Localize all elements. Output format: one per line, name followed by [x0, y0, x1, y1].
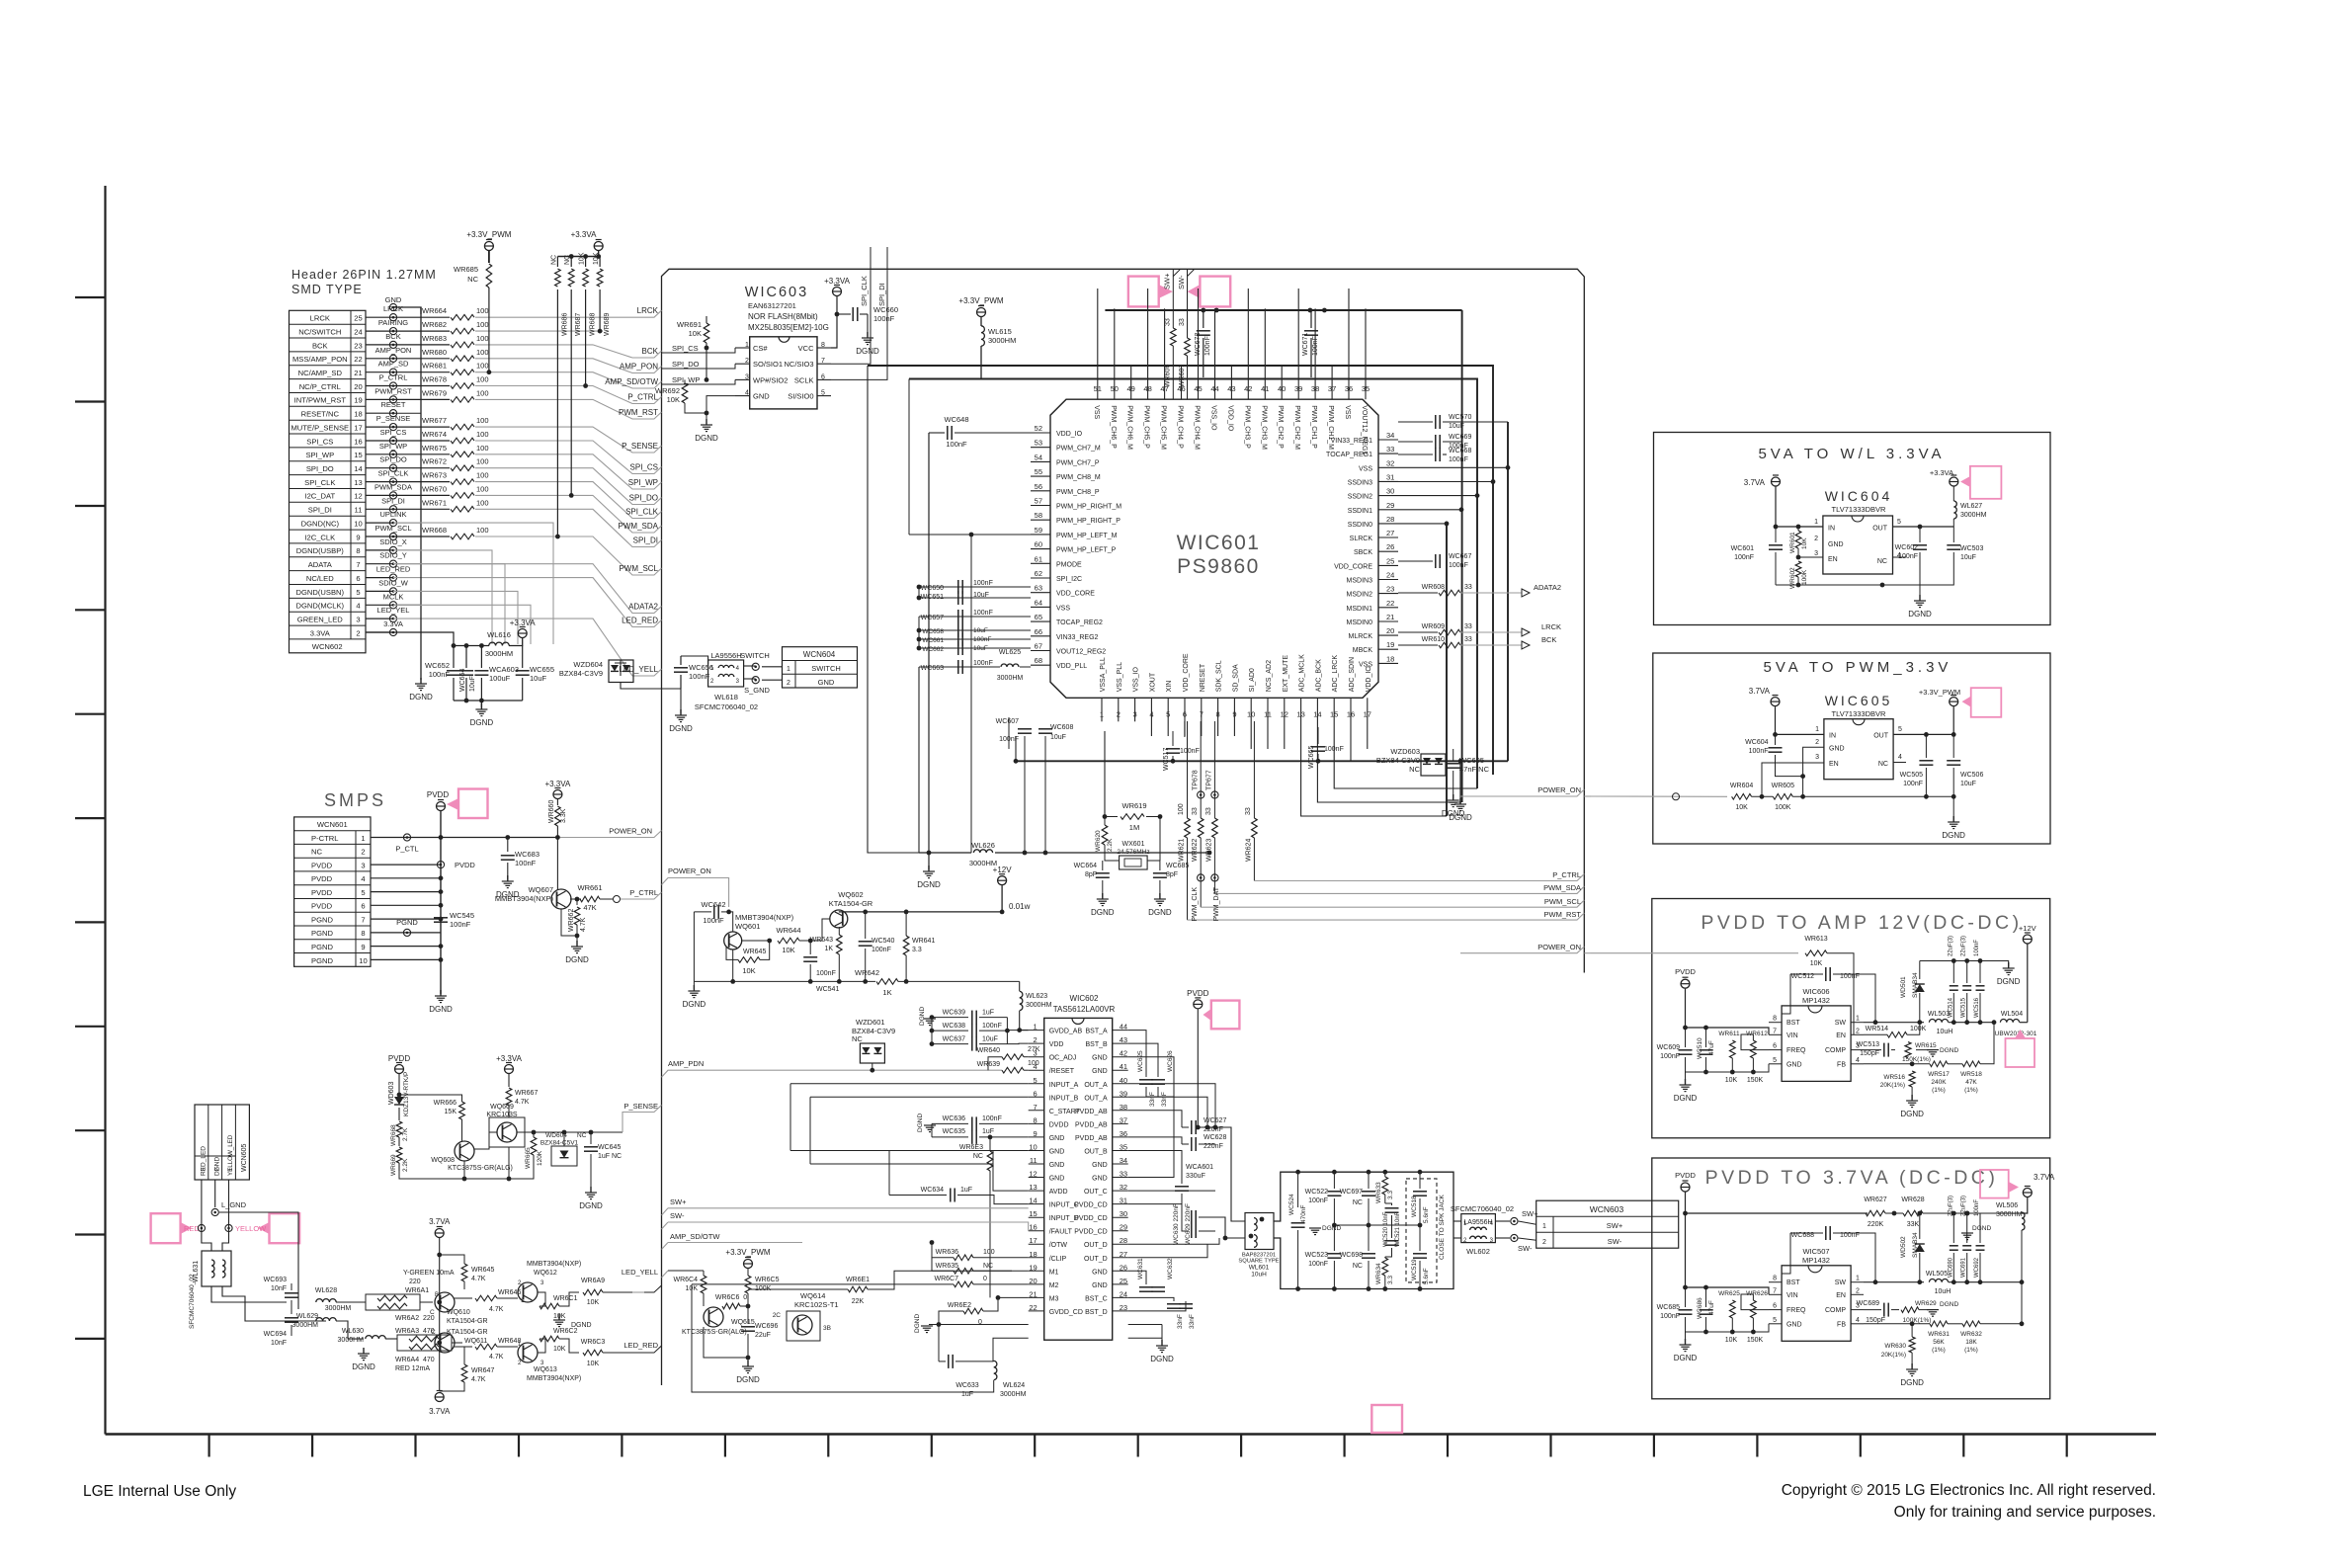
wire WR688 drop	[585, 289, 587, 386]
svg-text:OUT_A: OUT_A	[1084, 1095, 1108, 1102]
svg-text:5: 5	[361, 888, 365, 897]
svg-text:GVDD_AB: GVDD_AB	[1049, 1029, 1083, 1035]
wire 3.3VA row to caps cluster	[366, 632, 454, 646]
svg-text:WP#/SIO2: WP#/SIO2	[753, 375, 788, 384]
svg-text:100nF: 100nF	[1898, 553, 1918, 560]
svg-text:3000HM: 3000HM	[485, 649, 513, 658]
block box PVDD TO AMP 12V(DC-DC)	[1652, 899, 2050, 1138]
bus wire bottom collect	[1016, 760, 1508, 762]
svg-text:4.7K: 4.7K	[471, 1376, 486, 1383]
svg-text:4.7K: 4.7K	[515, 1099, 530, 1106]
capacitor WC521 10nF	[1385, 1240, 1399, 1242]
svg-text:WR516: WR516	[1883, 1074, 1905, 1081]
svg-text:GND: GND	[1049, 1149, 1065, 1156]
svg-text:WR6C7: WR6C7	[934, 1276, 958, 1282]
wire box1 in	[1776, 487, 1823, 528]
svg-text:100nF: 100nF	[973, 610, 993, 617]
svg-text:DGND: DGND	[1148, 908, 1172, 917]
capacitor WC627 220nF	[1128, 1111, 1182, 1127]
capacitor WC665b 8pF	[1153, 872, 1167, 874]
svg-text:VSS_PLL: VSS_PLL	[1117, 662, 1123, 692]
svg-text:2: 2	[1814, 536, 1818, 542]
svg-text:NC: NC	[1877, 558, 1887, 565]
svg-text:WR660: WR660	[548, 800, 555, 823]
svg-text:22K: 22K	[852, 1298, 865, 1305]
svg-text:WR6A2 220: WR6A2 220	[395, 1315, 435, 1322]
svg-text:DGND: DGND	[1674, 1094, 1698, 1103]
svg-text:63: 63	[1035, 584, 1042, 593]
svg-text:SLRCK: SLRCK	[1350, 536, 1373, 542]
svg-text:22: 22	[1386, 599, 1394, 608]
svg-text:1: 1	[1856, 1276, 1860, 1282]
wire WCN603 pins	[1518, 1220, 1536, 1222]
wire INPUT_A INPUT_B	[790, 1083, 1029, 1085]
svg-text:DGND: DGND	[1442, 809, 1465, 818]
diode WD604 BZX84-C5V1 NC	[551, 1146, 577, 1166]
svg-text:0: 0	[983, 1276, 987, 1282]
svg-text:WC691: WC691	[1961, 1257, 1967, 1278]
svg-text:POWER_ON: POWER_ON	[1537, 943, 1581, 951]
wire SW+ to INPUT_C	[662, 1208, 669, 1215]
svg-text:WZD604: WZD604	[573, 660, 603, 669]
svg-text:VDD_IO: VDD_IO	[1226, 405, 1233, 432]
svg-text:WQ607: WQ607	[529, 885, 553, 894]
node P_CTL	[403, 834, 410, 841]
svg-text:100nF: 100nF	[1903, 781, 1923, 787]
svg-text:18: 18	[354, 410, 362, 419]
svg-text:33: 33	[1464, 623, 1472, 630]
svg-text:6: 6	[361, 902, 365, 911]
svg-text:150K: 150K	[1747, 1077, 1764, 1084]
svg-text:EN: EN	[1836, 1292, 1846, 1299]
svg-text:100: 100	[476, 306, 489, 315]
svg-text:WC503: WC503	[1960, 545, 1983, 552]
svg-text:SFCMC706040_02: SFCMC706040_02	[695, 702, 758, 711]
svg-text:60: 60	[1035, 540, 1042, 549]
svg-text:2: 2	[787, 680, 790, 687]
capacitor WC672 100nF	[1203, 310, 1204, 328]
header pin 23 row BCK wire	[366, 344, 393, 346]
svg-text:14: 14	[354, 464, 362, 473]
svg-text:NC: NC	[852, 1034, 863, 1043]
svg-text:3.3VA: 3.3VA	[310, 628, 331, 637]
svg-text:MP1432: MP1432	[1802, 1256, 1830, 1265]
svg-text:1uF: 1uF	[960, 1187, 972, 1194]
svg-text:3000HM: 3000HM	[292, 1322, 319, 1329]
svg-text:P_CTRL: P_CTRL	[1552, 870, 1581, 879]
resistor WR6C6 0	[722, 1303, 740, 1309]
svg-text:100nF: 100nF	[1449, 456, 1468, 463]
svg-text:1K: 1K	[824, 946, 833, 952]
svg-text:WC627: WC627	[1204, 1117, 1226, 1124]
svg-text:WR619: WR619	[1121, 801, 1146, 810]
svg-text:WR687: WR687	[575, 313, 582, 336]
svg-text:AMP_PON: AMP_PON	[375, 346, 412, 355]
svg-text:SBCK: SBCK	[1354, 549, 1372, 556]
capacitor WC660 100nF	[835, 312, 840, 317]
svg-text:VSS: VSS	[1344, 405, 1351, 419]
svg-text:DGND: DGND	[736, 1375, 760, 1384]
svg-text:25: 25	[354, 314, 362, 323]
svg-text:10uH: 10uH	[1935, 1288, 1951, 1295]
svg-text:WC639: WC639	[943, 1010, 965, 1017]
svg-text:5.6nF: 5.6nF	[1423, 1206, 1430, 1223]
svg-text:OUT_D: OUT_D	[1084, 1256, 1108, 1263]
svg-text:2.7K: 2.7K	[402, 1127, 409, 1141]
svg-text:100nF: 100nF	[1312, 336, 1319, 356]
wire P_CTRL to boundary	[475, 386, 662, 404]
svg-text:PWM_CH7_M: PWM_CH7_M	[1056, 446, 1101, 453]
svg-text:SPI_DI: SPI_DI	[308, 506, 332, 515]
capacitor WC630 220nF	[1128, 1217, 1182, 1231]
svg-text:PGND: PGND	[311, 929, 333, 938]
svg-text:UPLINK: UPLINK	[379, 510, 406, 519]
svg-text:WC633: WC633	[955, 1382, 978, 1389]
svg-text:3: 3	[201, 1168, 208, 1172]
svg-text:WC664: WC664	[1074, 863, 1097, 869]
svg-text:WR601: WR601	[1789, 532, 1796, 553]
callout pink square YELLOW	[270, 1213, 300, 1243]
svg-text:ADC_MCLK: ADC_MCLK	[1299, 654, 1306, 692]
svg-text:GND: GND	[1092, 1162, 1108, 1169]
svg-text:WC513: WC513	[1857, 1041, 1879, 1048]
svg-text:FREQ: FREQ	[1786, 1307, 1806, 1314]
svg-text:WR624: WR624	[1245, 839, 1252, 862]
svg-text:100nF: 100nF	[1734, 554, 1754, 561]
resistor WR605 100K	[1773, 794, 1792, 800]
svg-text:(1%): (1%)	[1964, 1347, 1978, 1354]
svg-text:WC663: WC663	[921, 665, 944, 672]
svg-text:7: 7	[1773, 1287, 1777, 1294]
svg-text:WC625: WC625	[1137, 1050, 1144, 1072]
svg-text:WC672: WC672	[1195, 333, 1202, 356]
svg-text:WR633: WR633	[1375, 1182, 1382, 1203]
svg-text:+3.3VA: +3.3VA	[496, 1054, 523, 1063]
svg-text:SDIO_Y: SDIO_Y	[379, 551, 407, 560]
svg-text:LA9556H: LA9556H	[710, 651, 741, 660]
svg-text:EN: EN	[1836, 1032, 1846, 1039]
resistor WR610 33 to BCK	[1398, 644, 1438, 646]
svg-text:WR629: WR629	[1915, 1300, 1937, 1307]
svg-text:WL623: WL623	[1026, 993, 1047, 1000]
svg-text:WIC604: WIC604	[1825, 488, 1893, 504]
resistor WR662 4.7K	[575, 897, 580, 902]
ground WC683 DGND	[507, 875, 509, 881]
svg-text:PVDD: PVDD	[311, 902, 333, 911]
svg-text:WR661: WR661	[577, 883, 602, 892]
ground WC695 DGND	[1453, 794, 1454, 800]
svg-text:4: 4	[1856, 1317, 1860, 1324]
svg-text:WC667: WC667	[1449, 553, 1471, 560]
ground caps cluster DGND	[480, 701, 482, 707]
wire WC639 bus to pin1	[1006, 1018, 1008, 1044]
svg-text:PWM_CH8_P: PWM_CH8_P	[1056, 489, 1100, 496]
header pin 22 row AMP_PON wire	[366, 358, 393, 360]
svg-text:LRCK: LRCK	[310, 314, 330, 323]
wire GND pins 9-12	[993, 1151, 1029, 1192]
svg-text:PVDD_AB: PVDD_AB	[1075, 1109, 1108, 1115]
svg-text:WC602: WC602	[1895, 544, 1918, 551]
svg-text:10uF: 10uF	[1960, 781, 1976, 787]
wire SDIO_X/SDIO_Y/SDIO_W/MCLK drops	[393, 550, 492, 644]
svg-text:WR610: WR610	[1422, 636, 1445, 643]
svg-text:WC522: WC522	[1305, 1189, 1328, 1196]
svg-text:100K: 100K	[1910, 1026, 1927, 1032]
main schematic boundary outline	[662, 269, 1585, 1385]
svg-text:NRESET: NRESET	[1200, 663, 1206, 692]
svg-text:DGND(USBP): DGND(USBP)	[296, 546, 345, 555]
svg-text:10uF: 10uF	[1960, 554, 1976, 561]
svg-text:WC609: WC609	[1657, 1044, 1680, 1051]
border ruler bottom ticks	[208, 1435, 210, 1457]
svg-text:10uH: 10uH	[1251, 1272, 1267, 1279]
resistor WR6C7 0	[954, 1281, 973, 1287]
wire WR686 drop	[556, 289, 558, 536]
svg-text:(1%): (1%)	[1932, 1087, 1946, 1094]
resistor WR613 10K	[1805, 950, 1827, 956]
svg-text:WR621: WR621	[1179, 839, 1186, 862]
svg-text:1: 1	[361, 834, 365, 843]
svg-text:WR632: WR632	[1960, 1331, 1982, 1338]
svg-text:PWM_CH1_P: PWM_CH1_P	[1310, 405, 1317, 449]
svg-text:10uF: 10uF	[1050, 734, 1066, 741]
capacitor WC625 WC626 33nF	[1128, 1031, 1146, 1077]
svg-text:10K: 10K	[1801, 537, 1808, 549]
svg-text:VOUT12_REG1: VOUT12_REG1	[1361, 405, 1368, 454]
svg-text:61: 61	[1035, 554, 1042, 563]
header pin 11 row SPI_DI wire	[366, 508, 393, 510]
wire box3 gnd bus	[1686, 1064, 1770, 1072]
wire P_SENSE to boundary	[475, 427, 662, 453]
svg-text:PWM_CH3_P: PWM_CH3_P	[1243, 405, 1250, 449]
svg-text:33K: 33K	[1907, 1221, 1920, 1228]
svg-text:13: 13	[354, 478, 362, 487]
svg-text:WR635: WR635	[936, 1263, 958, 1270]
svg-text:WR692: WR692	[655, 386, 680, 395]
svg-text:GND: GND	[818, 678, 835, 687]
svg-text:WC668: WC668	[1449, 448, 1471, 454]
svg-text:WD502: WD502	[1900, 1236, 1907, 1258]
svg-text:3: 3	[1815, 754, 1819, 761]
svg-text:SPI_I2C: SPI_I2C	[1056, 576, 1082, 583]
svg-text:BZX84-C3V9: BZX84-C3V9	[1376, 756, 1420, 765]
svg-text:100nF: 100nF	[1324, 746, 1344, 753]
header pin 4 row MCLK wire	[366, 604, 393, 606]
svg-text:4.7K: 4.7K	[489, 1306, 504, 1313]
resistor WR628 33K	[1903, 1210, 1923, 1216]
svg-text:WL624: WL624	[1003, 1382, 1025, 1389]
svg-text:220K: 220K	[1868, 1221, 1884, 1228]
svg-text:PVDD_CD: PVDD_CD	[1074, 1229, 1107, 1236]
capacitor WC696 22uF	[747, 1306, 749, 1324]
svg-text:ADATA2: ADATA2	[1534, 583, 1561, 592]
wire SPI_WP to boundary	[475, 454, 662, 489]
svg-text:PWM_SCL: PWM_SCL	[1544, 897, 1581, 906]
svg-text:3000HM: 3000HM	[1960, 512, 1987, 519]
resistor WR640 27K	[1002, 1054, 1024, 1060]
svg-text:NC: NC	[973, 1153, 983, 1160]
svg-text:100nF: 100nF	[1749, 748, 1769, 755]
svg-text:GND: GND	[1092, 1068, 1108, 1075]
header pin 8 row SDIO_X wire	[366, 549, 393, 551]
header pin 17 row P_SENSE wire	[366, 426, 393, 428]
block box PVDD TO 3.7VA (DC-DC)	[1652, 1158, 2050, 1399]
capacitor WC570 10uF	[1398, 421, 1433, 423]
capacitor WC664 8pF	[1096, 872, 1110, 874]
svg-text:23: 23	[354, 341, 362, 350]
wire freq link box4	[1741, 1294, 1769, 1310]
svg-text:VDD_CORE: VDD_CORE	[1334, 563, 1372, 570]
filter WL631 SFCMC706040_02	[202, 1251, 231, 1286]
svg-text:BCK: BCK	[312, 341, 328, 350]
header pin 14 row SPI_DO wire	[366, 467, 393, 469]
svg-text:DGND(NC): DGND(NC)	[301, 520, 340, 529]
header DGND bus vertical wire	[420, 307, 422, 680]
svg-text:3B: 3B	[823, 1325, 831, 1332]
svg-text:NC: NC	[1878, 761, 1888, 768]
transistor WQ612 MMBT3904(NXP)	[518, 1282, 538, 1302]
resistor WR685 NC	[488, 251, 490, 263]
svg-text:23: 23	[1386, 585, 1394, 594]
block box 5VA TO PWM_3.3V	[1653, 653, 2050, 844]
svg-text:SDK_SCL: SDK_SCL	[1216, 660, 1223, 692]
svg-text:SPI_CLK: SPI_CLK	[625, 508, 659, 517]
svg-text:SPI_CLK: SPI_CLK	[860, 276, 869, 306]
svg-text:100nF: 100nF	[973, 636, 991, 643]
svg-text:NC/LED: NC/LED	[306, 574, 334, 583]
svg-text:MSDIN3: MSDIN3	[1347, 578, 1373, 585]
svg-text:VIN33_REG2: VIN33_REG2	[1056, 634, 1099, 641]
svg-text:Only for training and service: Only for training and service purposes.	[1894, 1504, 2156, 1521]
resistor WR669 2.2K	[398, 1137, 400, 1146]
svg-text:7: 7	[1773, 1028, 1777, 1034]
svg-text:WC689: WC689	[1857, 1300, 1879, 1307]
svg-text:SPI_CS: SPI_CS	[306, 437, 333, 446]
svg-text:I2C_DAT: I2C_DAT	[304, 492, 335, 501]
svg-text:MMBT3904(NXP): MMBT3904(NXP)	[735, 913, 794, 922]
svg-text:100nF: 100nF	[1660, 1053, 1680, 1060]
svg-text:WC524: WC524	[1288, 1194, 1295, 1215]
capacitor 33nF pair 2	[1167, 1303, 1181, 1305]
svg-text:56: 56	[1035, 482, 1042, 491]
svg-text:RESET/NC: RESET/NC	[301, 410, 340, 419]
svg-text:3.7VA: 3.7VA	[429, 1217, 451, 1226]
svg-text:47K: 47K	[583, 903, 596, 912]
wire SW node box4	[1864, 1281, 1924, 1283]
svg-text:330uF: 330uF	[1186, 1173, 1205, 1180]
resistor WR667 4.7K	[508, 1074, 510, 1087]
wire PGND pin 10	[371, 958, 441, 960]
svg-text:+3.3VA: +3.3VA	[571, 230, 598, 239]
svg-text:INPUT_A: INPUT_A	[1049, 1082, 1079, 1089]
svg-text:5: 5	[1773, 1057, 1777, 1064]
capacitor WC635 1uF	[932, 1136, 968, 1138]
svg-text:100: 100	[476, 362, 489, 371]
resistor WR642 1K	[876, 979, 898, 985]
svg-text:4: 4	[1856, 1057, 1860, 1064]
svg-text:IN: IN	[1828, 525, 1835, 532]
svg-text:WR518: WR518	[1960, 1071, 1982, 1078]
capacitor WC505 100nF	[1925, 734, 1927, 758]
svg-text:4: 4	[1898, 754, 1902, 761]
diode WD603 KDZ13V-RTK/P	[398, 1074, 400, 1095]
svg-text:100nF: 100nF	[689, 672, 710, 681]
callout pink square bottom center	[1371, 1405, 1402, 1433]
svg-text:SPI_CLK: SPI_CLK	[378, 469, 409, 478]
svg-text:ADATA2: ADATA2	[628, 603, 658, 612]
svg-text:2: 2	[1542, 1239, 1546, 1246]
capacitor WC655 10uF	[522, 646, 524, 669]
svg-text:MP1432: MP1432	[1802, 996, 1830, 1005]
svg-text:100nF: 100nF	[1204, 336, 1211, 356]
svg-text:WR681: WR681	[422, 362, 447, 371]
wire SPI_CS to boundary	[475, 441, 662, 474]
resistor WR680 100	[393, 358, 450, 360]
svg-text:WC695: WC695	[1459, 756, 1484, 765]
svg-text:DGND: DGND	[1322, 1225, 1341, 1232]
svg-text:PWM_HP_LEFT_M: PWM_HP_LEFT_M	[1056, 533, 1118, 539]
svg-text:WC683: WC683	[515, 850, 540, 859]
svg-text:CS#: CS#	[753, 344, 768, 353]
capacitor WC634 1uF	[889, 1195, 947, 1197]
svg-text:WR6E1: WR6E1	[846, 1277, 870, 1283]
svg-text:WR607: WR607	[1179, 365, 1186, 387]
svg-text:PWM_HP_RIGHT_M: PWM_HP_RIGHT_M	[1056, 504, 1121, 511]
svg-text:WR644: WR644	[776, 926, 800, 935]
svg-text:100nF: 100nF	[1180, 748, 1200, 755]
svg-text:100nF: 100nF	[515, 859, 537, 867]
wire OUT_D	[1128, 1238, 1219, 1244]
svg-text:10uF: 10uF	[1449, 423, 1464, 430]
svg-text:WC628: WC628	[1204, 1134, 1226, 1141]
svg-text:SWITCH: SWITCH	[740, 651, 770, 660]
header pin 9 row PWM_SCL wire	[366, 536, 393, 537]
svg-text:P_SENSE: P_SENSE	[376, 414, 411, 423]
svg-text:1K: 1K	[882, 988, 891, 997]
svg-text:57: 57	[1035, 497, 1042, 506]
svg-text:PWM_CH2_M: PWM_CH2_M	[1293, 405, 1300, 450]
svg-text:DGND: DGND	[919, 1007, 926, 1026]
svg-text:33nF: 33nF	[1149, 1092, 1156, 1107]
svg-text:WR674: WR674	[422, 430, 447, 439]
svg-text:100nF: 100nF	[982, 1115, 1002, 1122]
svg-text:10uF: 10uF	[973, 645, 988, 652]
header pin 20 row P_CTRL wire	[366, 385, 393, 387]
svg-text:3000HM: 3000HM	[1996, 1211, 2023, 1218]
svg-text:WIC603: WIC603	[745, 285, 808, 300]
resistor WR681 100	[393, 371, 450, 373]
svg-text:100: 100	[983, 1249, 995, 1256]
node PVDD stub	[437, 862, 444, 868]
svg-text:WZD601: WZD601	[856, 1018, 885, 1027]
svg-text:20: 20	[1386, 626, 1394, 635]
capacitor WC697 NC	[1368, 1172, 1370, 1189]
wire GND pins 42 41	[1128, 1057, 1174, 1097]
svg-text:100: 100	[476, 444, 489, 453]
svg-text:CLOSE TO SPK JACK: CLOSE TO SPK JACK	[1439, 1194, 1446, 1260]
svg-text:3.3: 3.3	[912, 947, 922, 953]
svg-text:10uF: 10uF	[530, 674, 547, 683]
svg-text:WR615: WR615	[1915, 1042, 1937, 1049]
svg-text:100nF: 100nF	[1974, 940, 1980, 956]
svg-text:PVDD: PVDD	[388, 1054, 410, 1063]
svg-text:DGND: DGND	[352, 1362, 375, 1371]
svg-text:SPI_CS: SPI_CS	[380, 428, 407, 437]
wire POWER_ON into box3	[1584, 952, 1591, 954]
svg-text:WC632: WC632	[1167, 1258, 1174, 1279]
svg-text:100nF: 100nF	[973, 580, 993, 587]
header pin 7 row SDIO_Y wire	[366, 563, 393, 565]
